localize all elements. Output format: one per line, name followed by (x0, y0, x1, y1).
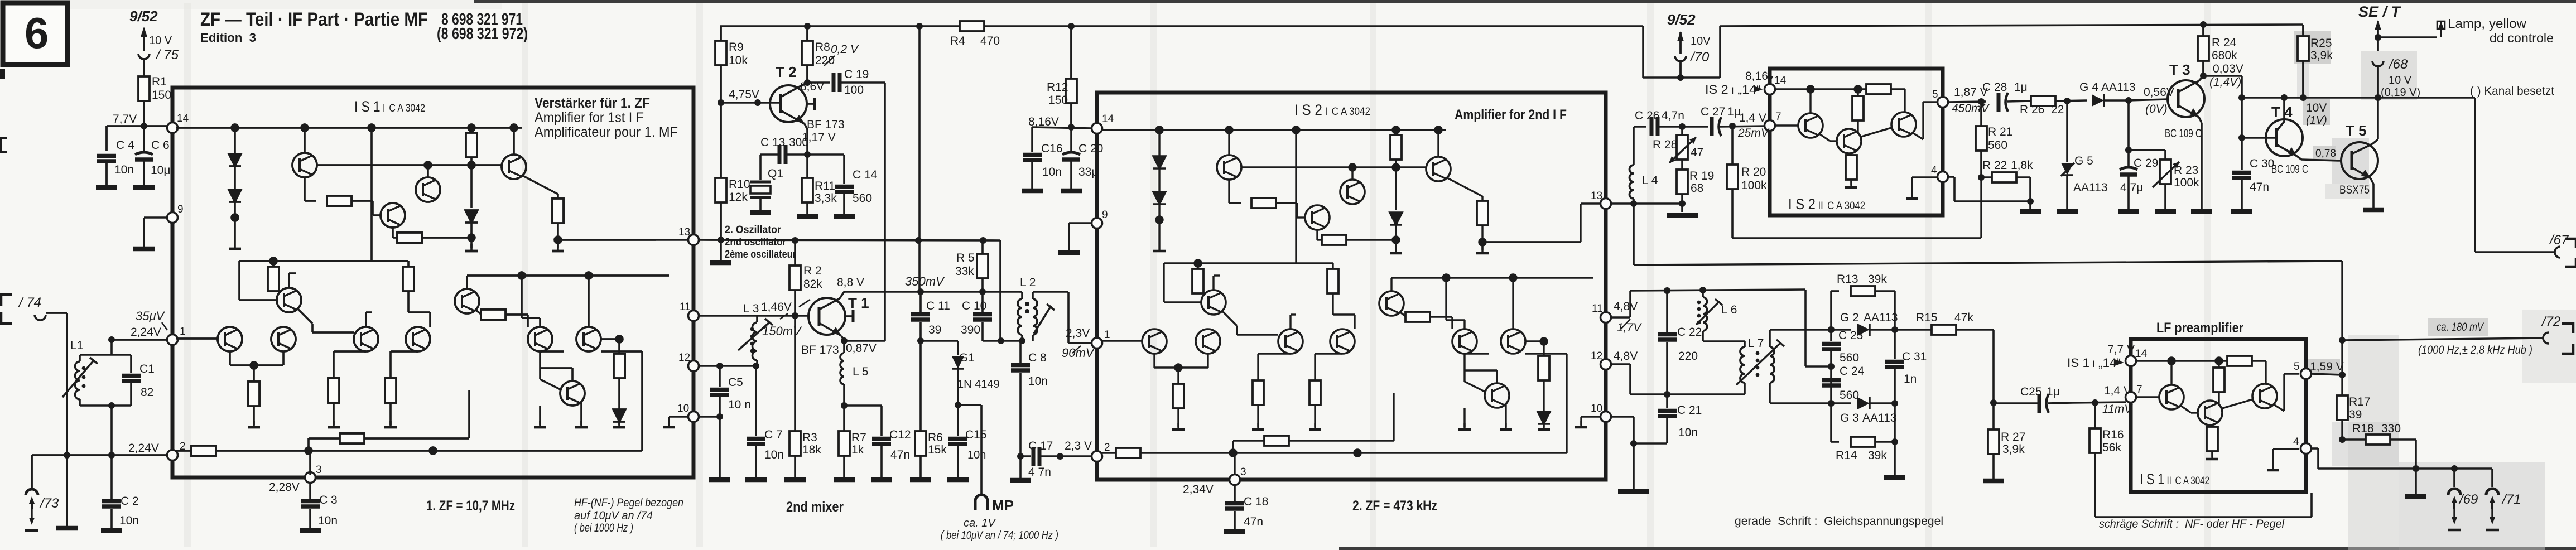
svg-text:/ 75: / 75 (155, 47, 179, 62)
svg-text:C 27: C 27 (1701, 105, 1725, 118)
IS1 pin 3 (269, 464, 322, 494)
svg-text:4,8V: 4,8V (1614, 350, 1638, 363)
svg-text:2,3V: 2,3V (1066, 327, 1090, 340)
svg-text:68: 68 (1691, 182, 1703, 195)
svg-text:C 24: C 24 (1840, 365, 1865, 378)
svg-text:14: 14 (177, 113, 189, 124)
svg-text:2ème oscillateur: 2ème oscillateur (725, 249, 797, 260)
page edge mark left (0, 69, 5, 79)
IS2II pin 7 (1737, 111, 1781, 139)
transistor T2 (770, 64, 845, 131)
svg-text:1n: 1n (1904, 373, 1917, 385)
internal feedback line (467, 274, 669, 276)
svg-text:1μ: 1μ (2014, 81, 2028, 94)
svg-text:T 1: T 1 (848, 295, 869, 311)
internal emitter line pin 2 (176, 450, 191, 451)
svg-text:R15: R15 (1916, 311, 1938, 324)
svg-text:R17: R17 (2349, 395, 2371, 408)
resistor R9 (715, 26, 748, 240)
svg-text:R4: R4 (950, 35, 965, 47)
wire pin 11 to primary rail (1611, 290, 1831, 366)
inductor L3 (699, 300, 810, 366)
svg-text:C25: C25 (2020, 385, 2042, 398)
diode G2 (1831, 311, 1898, 336)
capacitor C19 (804, 68, 885, 97)
internal resistor h1 (305, 200, 316, 201)
capacitor C22 (1658, 287, 1702, 394)
svg-text:1,7V: 1,7V (1617, 321, 1642, 334)
svg-text:1,4 V: 1,4 V (1739, 112, 1766, 124)
capacitor C29 electrolytic (2118, 100, 2158, 211)
internal transistor Qm (560, 381, 585, 406)
svg-text:9: 9 (177, 204, 184, 215)
IS2II pin 14 (1705, 70, 1787, 97)
wire pin5 chain (1948, 102, 1986, 102)
svg-text:47k: 47k (1954, 311, 1973, 324)
svg-text:390: 390 (961, 324, 980, 336)
internal transistor Qd (502, 155, 526, 179)
svg-text:25mV: 25mV (1737, 127, 1770, 139)
wire collector T3 to long 10V line (2203, 76, 2242, 170)
svg-text:R 19: R 19 (1689, 170, 1714, 182)
svg-text:R6: R6 (928, 431, 943, 444)
svg-text:R12: R12 (1047, 81, 1068, 94)
capacitor C12 (844, 406, 911, 480)
internal transistor Qc (381, 203, 405, 228)
svg-text:1N 4149: 1N 4149 (957, 378, 1000, 390)
svg-text:R3: R3 (802, 431, 817, 444)
diode G3 (1828, 397, 1898, 424)
IC IS1 II CA3042 block border (2131, 320, 2306, 492)
capacitor C6 electrolytic (135, 126, 170, 186)
svg-text:4,75V: 4,75V (729, 88, 759, 101)
svg-text:AA113: AA113 (1862, 412, 1897, 424)
svg-text:150: 150 (152, 89, 171, 102)
IS2 pin 2 (1092, 442, 1110, 462)
svg-text:1μ: 1μ (2047, 385, 2060, 398)
resistor R22 (1978, 159, 2041, 211)
svg-text:/69: /69 (2458, 492, 2478, 507)
internal transistors Qh Qi (354, 327, 378, 351)
svg-text:( bei 1000 Hz ): ( bei 1000 Hz ) (574, 522, 633, 534)
svg-text:2nd mixer: 2nd mixer (786, 499, 844, 515)
internal resistor v2 (557, 194, 558, 199)
svg-text:auf 10μV an /74: auf 10μV an /74 (574, 509, 653, 522)
svg-text:22: 22 (2051, 103, 2064, 116)
svg-text:C 11: C 11 (926, 300, 950, 312)
IS2 pin 12 (1591, 350, 1611, 370)
wire AGC feedback (1732, 237, 1981, 239)
svg-text:BF 173: BF 173 (801, 344, 839, 356)
wire T3 base node (2129, 86, 2174, 115)
svg-text:300: 300 (789, 136, 808, 149)
resistor R23 variable (2129, 150, 2199, 211)
svg-text:10: 10 (1591, 403, 1602, 414)
diode G5 (2057, 101, 2108, 211)
svg-text:( ) Kanal besetzt: ( ) Kanal besetzt (2470, 85, 2554, 98)
svg-text:56k: 56k (2102, 441, 2121, 454)
internal transistor Qg (277, 288, 301, 312)
svg-text:L 4: L 4 (1642, 174, 1658, 187)
resistor R21 (1976, 102, 2012, 177)
capacitor C15 (947, 402, 987, 480)
svg-text:13: 13 (1591, 190, 1602, 202)
svg-text:C 20: C 20 (1078, 142, 1103, 155)
svg-text:R 22: R 22 (1982, 159, 2007, 172)
svg-text:C 31: C 31 (1902, 350, 1927, 363)
capacitor C14 (807, 155, 878, 216)
svg-text:C 28: C 28 (1982, 81, 2007, 94)
capacitor C1 (112, 355, 155, 406)
IS1 pin 2 (167, 441, 186, 461)
svg-text:14: 14 (1102, 113, 1114, 125)
resistor R13 (1828, 273, 1895, 333)
wire long return line (1634, 261, 2342, 440)
wire T3 emitter ground (2191, 123, 2212, 211)
svg-text:10n: 10n (114, 163, 134, 176)
svg-text:560: 560 (1988, 139, 2007, 152)
internal supply rail pin14 (176, 127, 522, 128)
svg-text:Verstärker für 1. ZF: Verstärker für 1. ZF (535, 95, 650, 111)
IS1 pin 12 (678, 352, 699, 372)
wire pin 4 to ground (1948, 177, 2030, 201)
svg-text:C 13: C 13 (760, 136, 785, 149)
wire pin 10 to ground (1611, 417, 1667, 489)
capacitor C27 (1682, 105, 1765, 136)
node 8,16V (1028, 115, 1092, 131)
IC IS2 I internal circuit (1100, 127, 1593, 477)
capacitor C31 (1885, 330, 1927, 403)
IS2 pin 3 (1183, 466, 1246, 496)
resistor R19 (1677, 170, 1714, 204)
svg-text:2,24V: 2,24V (131, 326, 161, 339)
internal resistor v2 (1848, 153, 1850, 158)
svg-text:L 5: L 5 (853, 365, 868, 378)
connector /71 (2486, 469, 2521, 530)
svg-text:C 22: C 22 (1677, 326, 1702, 339)
svg-text:R 24: R 24 (2212, 36, 2237, 49)
inductor L2 (1018, 276, 1068, 343)
capacitor C3 (300, 483, 338, 530)
resistor R3 (784, 316, 821, 480)
svg-text:R 23: R 23 (2174, 164, 2198, 177)
resistor R10 (715, 178, 750, 204)
wire /72 output line (2339, 314, 2573, 356)
svg-text:4 7n: 4 7n (1028, 466, 1051, 479)
svg-text:35μV: 35μV (136, 309, 166, 323)
resistor R8 (802, 26, 859, 83)
svg-text:560: 560 (1840, 351, 1859, 364)
svg-text:4,7μ: 4,7μ (2120, 181, 2143, 194)
svg-text:ca. 180 mV: ca. 180 mV (2437, 321, 2484, 334)
svg-text:R25: R25 (2310, 37, 2332, 50)
node C11 bottom (917, 337, 958, 344)
svg-text:4: 4 (1931, 165, 1937, 176)
capacitor C30 (2231, 157, 2274, 211)
svg-text:0,2 V: 0,2 V (831, 43, 859, 56)
svg-text:1μ: 1μ (1727, 105, 1741, 118)
svg-text:2,28V: 2,28V (269, 481, 300, 494)
internal resistor h3 (481, 310, 505, 320)
internal pin 4 ground (1912, 176, 1938, 178)
internal transistor Qa (292, 153, 317, 177)
svg-text:3: 3 (316, 464, 322, 476)
svg-text:C 10: C 10 (962, 300, 986, 312)
wire 350mV rail (844, 274, 1019, 295)
svg-text:MP: MP (992, 497, 1014, 514)
ground C4 (96, 187, 117, 188)
svg-text:0,78: 0,78 (2315, 148, 2336, 160)
svg-text:gerade Schrift : Gleichspann: gerade Schrift : Gleichspannungspegel (1735, 515, 1943, 528)
IC IS2 I CA3042 block border (1097, 93, 1606, 480)
svg-text:11: 11 (1592, 303, 1603, 315)
svg-text:G 4: G 4 (2079, 81, 2098, 94)
resistor R25 (2298, 25, 2333, 101)
svg-text:12: 12 (1591, 350, 1602, 362)
svg-text:C15: C15 (965, 428, 987, 441)
svg-text:R7: R7 (851, 431, 866, 444)
resistor R16 (2089, 403, 2312, 517)
svg-text:2: 2 (1104, 442, 1110, 453)
svg-text:SE / T: SE / T (2358, 3, 2402, 20)
inductor L1 (62, 339, 112, 406)
wire pin 5 to vertical (2311, 372, 2346, 378)
svg-text:1,8k: 1,8k (2011, 159, 2033, 172)
svg-text:R 26: R 26 (2020, 103, 2044, 116)
svg-text:(1V): (1V) (2306, 114, 2327, 127)
svg-text:(8 698 321 972): (8 698 321 972) (437, 25, 528, 43)
svg-text:1. ZF = 10,7 MHz: 1. ZF = 10,7 MHz (426, 498, 515, 514)
svg-text:C 21: C 21 (1677, 404, 1702, 417)
svg-text:220: 220 (1678, 350, 1698, 363)
svg-text:BF 173: BF 173 (807, 118, 845, 131)
svg-text:10μ: 10μ (151, 164, 170, 177)
node 7,7V (107, 113, 172, 129)
IS1II pin 7 (2102, 384, 2142, 416)
svg-text:12: 12 (678, 352, 690, 364)
svg-text:11mV: 11mV (2102, 403, 2133, 416)
svg-text:G 3: G 3 (1840, 412, 1859, 424)
internal transistors Qk Ql (528, 327, 552, 351)
svg-text:R14: R14 (1836, 449, 1857, 462)
svg-text:C 30: C 30 (2250, 157, 2274, 170)
resistor R18 (2339, 422, 2426, 496)
svg-text:82: 82 (141, 386, 153, 399)
connector SE/T (2358, 3, 2420, 99)
wire T4 emitter to T5 base (2301, 148, 2341, 161)
svg-text:Amplificateur pour 1. MF: Amplificateur pour 1. MF (535, 124, 678, 140)
svg-text:( bei 10μV an / 74; 1000 Hz ): ( bei 10μV an / 74; 1000 Hz ) (941, 529, 1058, 542)
internal pin3 riser (309, 451, 311, 475)
crystal Q1 (750, 155, 783, 213)
svg-text:100k: 100k (1741, 179, 1767, 192)
scanner gray patches right side (184, 3, 2211, 547)
svg-text:1: 1 (180, 326, 186, 337)
svg-text:C 19: C 19 (844, 68, 869, 81)
svg-text:R9: R9 (729, 41, 744, 54)
svg-text:C 3: C 3 (319, 494, 338, 506)
title text (200, 9, 528, 45)
svg-text:Lamp, yellow: Lamp, yellow (2448, 16, 2526, 31)
svg-text:100: 100 (844, 84, 864, 97)
svg-text:schräge Schrift : NF- oder HF: schräge Schrift : NF- oder HF - Pegel (2099, 518, 2285, 530)
transistor T1 mixer (801, 276, 869, 356)
node tank top to pin 1 wire (108, 309, 167, 355)
svg-text:L 7: L 7 (1748, 337, 1764, 350)
svg-text:Edition 3: Edition 3 (200, 31, 256, 45)
capacitor C24 (1822, 363, 1865, 402)
svg-text:11: 11 (680, 301, 691, 313)
svg-text:AA113: AA113 (2073, 181, 2108, 194)
IS1 pin 13 (656, 226, 699, 245)
svg-text:18k: 18k (802, 443, 821, 456)
internal resistor v7 (403, 267, 414, 291)
node C10 bottom / L2 secondary (983, 337, 1025, 344)
svg-text:L 6: L 6 (1721, 303, 1737, 316)
svg-text:3,9k: 3,9k (2002, 443, 2025, 456)
svg-text:5: 5 (1932, 89, 1938, 100)
wire T5 collector up (2377, 98, 2379, 139)
wire top supply rail (720, 25, 2303, 78)
svg-text:L 3: L 3 (743, 302, 759, 315)
svg-text:C12: C12 (889, 428, 911, 441)
svg-text:/ 74: / 74 (18, 295, 41, 310)
svg-text:C 17: C 17 (1028, 440, 1053, 452)
transistor T3 (2165, 61, 2204, 140)
wire R1 to node 7,7V (143, 101, 145, 126)
resistor R1 (138, 75, 171, 102)
IS1 pin 10 (663, 403, 699, 427)
wire pin 12 line (699, 363, 757, 369)
internal transistor Qe (218, 327, 242, 351)
wire pin 4 output line (2311, 448, 2492, 469)
svg-text:(0V): (0V) (2145, 103, 2168, 115)
connector /74 input (1, 295, 67, 324)
capacitor C2 (101, 455, 139, 530)
capacitor C7 (745, 363, 784, 480)
svg-text:10k: 10k (729, 54, 748, 67)
svg-text:R 21: R 21 (1988, 126, 2012, 138)
svg-text:47n: 47n (1244, 515, 1263, 528)
svg-text:L1: L1 (70, 339, 83, 352)
svg-text:3,9k: 3,9k (2310, 49, 2333, 62)
connector 9/52 top-left (129, 8, 179, 76)
svg-text:10n: 10n (1042, 166, 1062, 178)
internal resistor v3 (268, 267, 279, 291)
svg-text:G 2: G 2 (1840, 311, 1859, 324)
resistor R17 (2337, 395, 2371, 421)
svg-text:8,16: 8,16 (1745, 70, 1768, 83)
inductor L6 (1696, 287, 1737, 341)
wire to IS2 pin 1 (1062, 327, 1095, 360)
IS2II pin 5 (1932, 86, 1990, 115)
svg-text:9/52: 9/52 (1667, 11, 1696, 28)
capacitor C16 (1022, 127, 1063, 191)
IS2 pin 14 (1092, 113, 1114, 134)
svg-text:C 2: C 2 (121, 495, 139, 508)
IS2 pin 10 (1575, 403, 1611, 427)
svg-text:10: 10 (677, 403, 689, 414)
svg-text:10n: 10n (967, 449, 986, 461)
svg-text:LF preamplifier: LF preamplifier (2156, 320, 2243, 336)
oscillator text (725, 224, 797, 260)
resistor R15 (1895, 311, 1994, 335)
wire C19 to mixer emitter (884, 83, 886, 341)
svg-text:BSX75: BSX75 (2339, 184, 2370, 196)
capacitor C20 electrolytic (1061, 127, 1103, 191)
svg-text:150mV: 150mV (762, 324, 802, 338)
svg-text:330: 330 (2381, 422, 2401, 435)
svg-text:150: 150 (1048, 94, 1068, 107)
svg-text:BC 109 C: BC 109 C (2271, 163, 2308, 176)
svg-text:R 2: R 2 (803, 264, 822, 277)
svg-text:C 6: C 6 (151, 139, 170, 152)
svg-text:Amplifier for 1st I F: Amplifier for 1st I F (535, 110, 644, 126)
svg-text:7,7V: 7,7V (113, 113, 137, 126)
capacitor C28 (1982, 81, 2031, 112)
IC IS2 II internal circuit (shared with IS1 II) (1773, 84, 1938, 199)
svg-text:39: 39 (928, 324, 941, 336)
wire L6 to L7 (1703, 340, 1745, 342)
capacitor C5 (710, 366, 751, 417)
svg-text:560: 560 (1840, 389, 1859, 402)
IC IS1 I CA3042 internal circuit (shared drawing, used for IS1 and IS2) (176, 124, 669, 475)
IC IS2 II CA3042 block border (1770, 69, 1943, 215)
svg-text:7: 7 (2136, 384, 2142, 395)
resistor R7 (834, 402, 866, 480)
svg-text:8,8 V: 8,8 V (837, 276, 864, 289)
IS1 pin 14 (167, 113, 189, 133)
resistor R20 (1727, 126, 1767, 238)
svg-text:R18: R18 (2352, 422, 2374, 435)
svg-text:1: 1 (1104, 329, 1110, 341)
internal resistor v6 (385, 378, 396, 403)
svg-text:(1000 Hz,± 2,8 kHz Hub ): (1000 Hz,± 2,8 kHz Hub ) (2418, 344, 2532, 356)
svg-text:2,34V: 2,34V (1183, 483, 1214, 496)
wire tank bottom to pin 2 line (108, 402, 115, 459)
internal transistor Qb (416, 177, 440, 202)
internal vertical feed (370, 128, 372, 261)
svg-text:R1: R1 (152, 75, 167, 88)
svg-text:100k: 100k (2174, 176, 2199, 189)
internal zener diode (465, 210, 478, 223)
svg-text:2,24V: 2,24V (128, 442, 159, 455)
resistor R2 (789, 240, 822, 316)
inductor L4 (1630, 127, 1658, 265)
svg-text:/70: /70 (1689, 50, 1710, 65)
resistor R26 (2020, 96, 2087, 116)
IS1II pin 4 (2293, 436, 2312, 454)
wire pin 13 line (1611, 200, 1698, 215)
svg-text:350mV: 350mV (905, 274, 945, 288)
internal transistor Qf (271, 327, 296, 351)
index box 6 (3, 3, 68, 65)
IS2II pin 4 (1931, 165, 1948, 182)
internal resistor h4 (309, 437, 340, 439)
svg-text:C 26: C 26 (1635, 109, 1659, 122)
ground C17 left (1010, 456, 1031, 480)
svg-text:10V: 10V (1691, 35, 1711, 47)
internal rail pin 14 (1773, 88, 1866, 90)
inductor L5 (840, 337, 877, 406)
inductor L7 (1736, 330, 1831, 403)
svg-text:T 4: T 4 (2271, 104, 2293, 120)
svg-text:10 n: 10 n (728, 398, 751, 411)
internal resistor v1 (470, 128, 472, 136)
connector /69 (2448, 465, 2478, 530)
resistor R4 (950, 21, 1000, 47)
svg-text:3: 3 (1240, 466, 1246, 478)
